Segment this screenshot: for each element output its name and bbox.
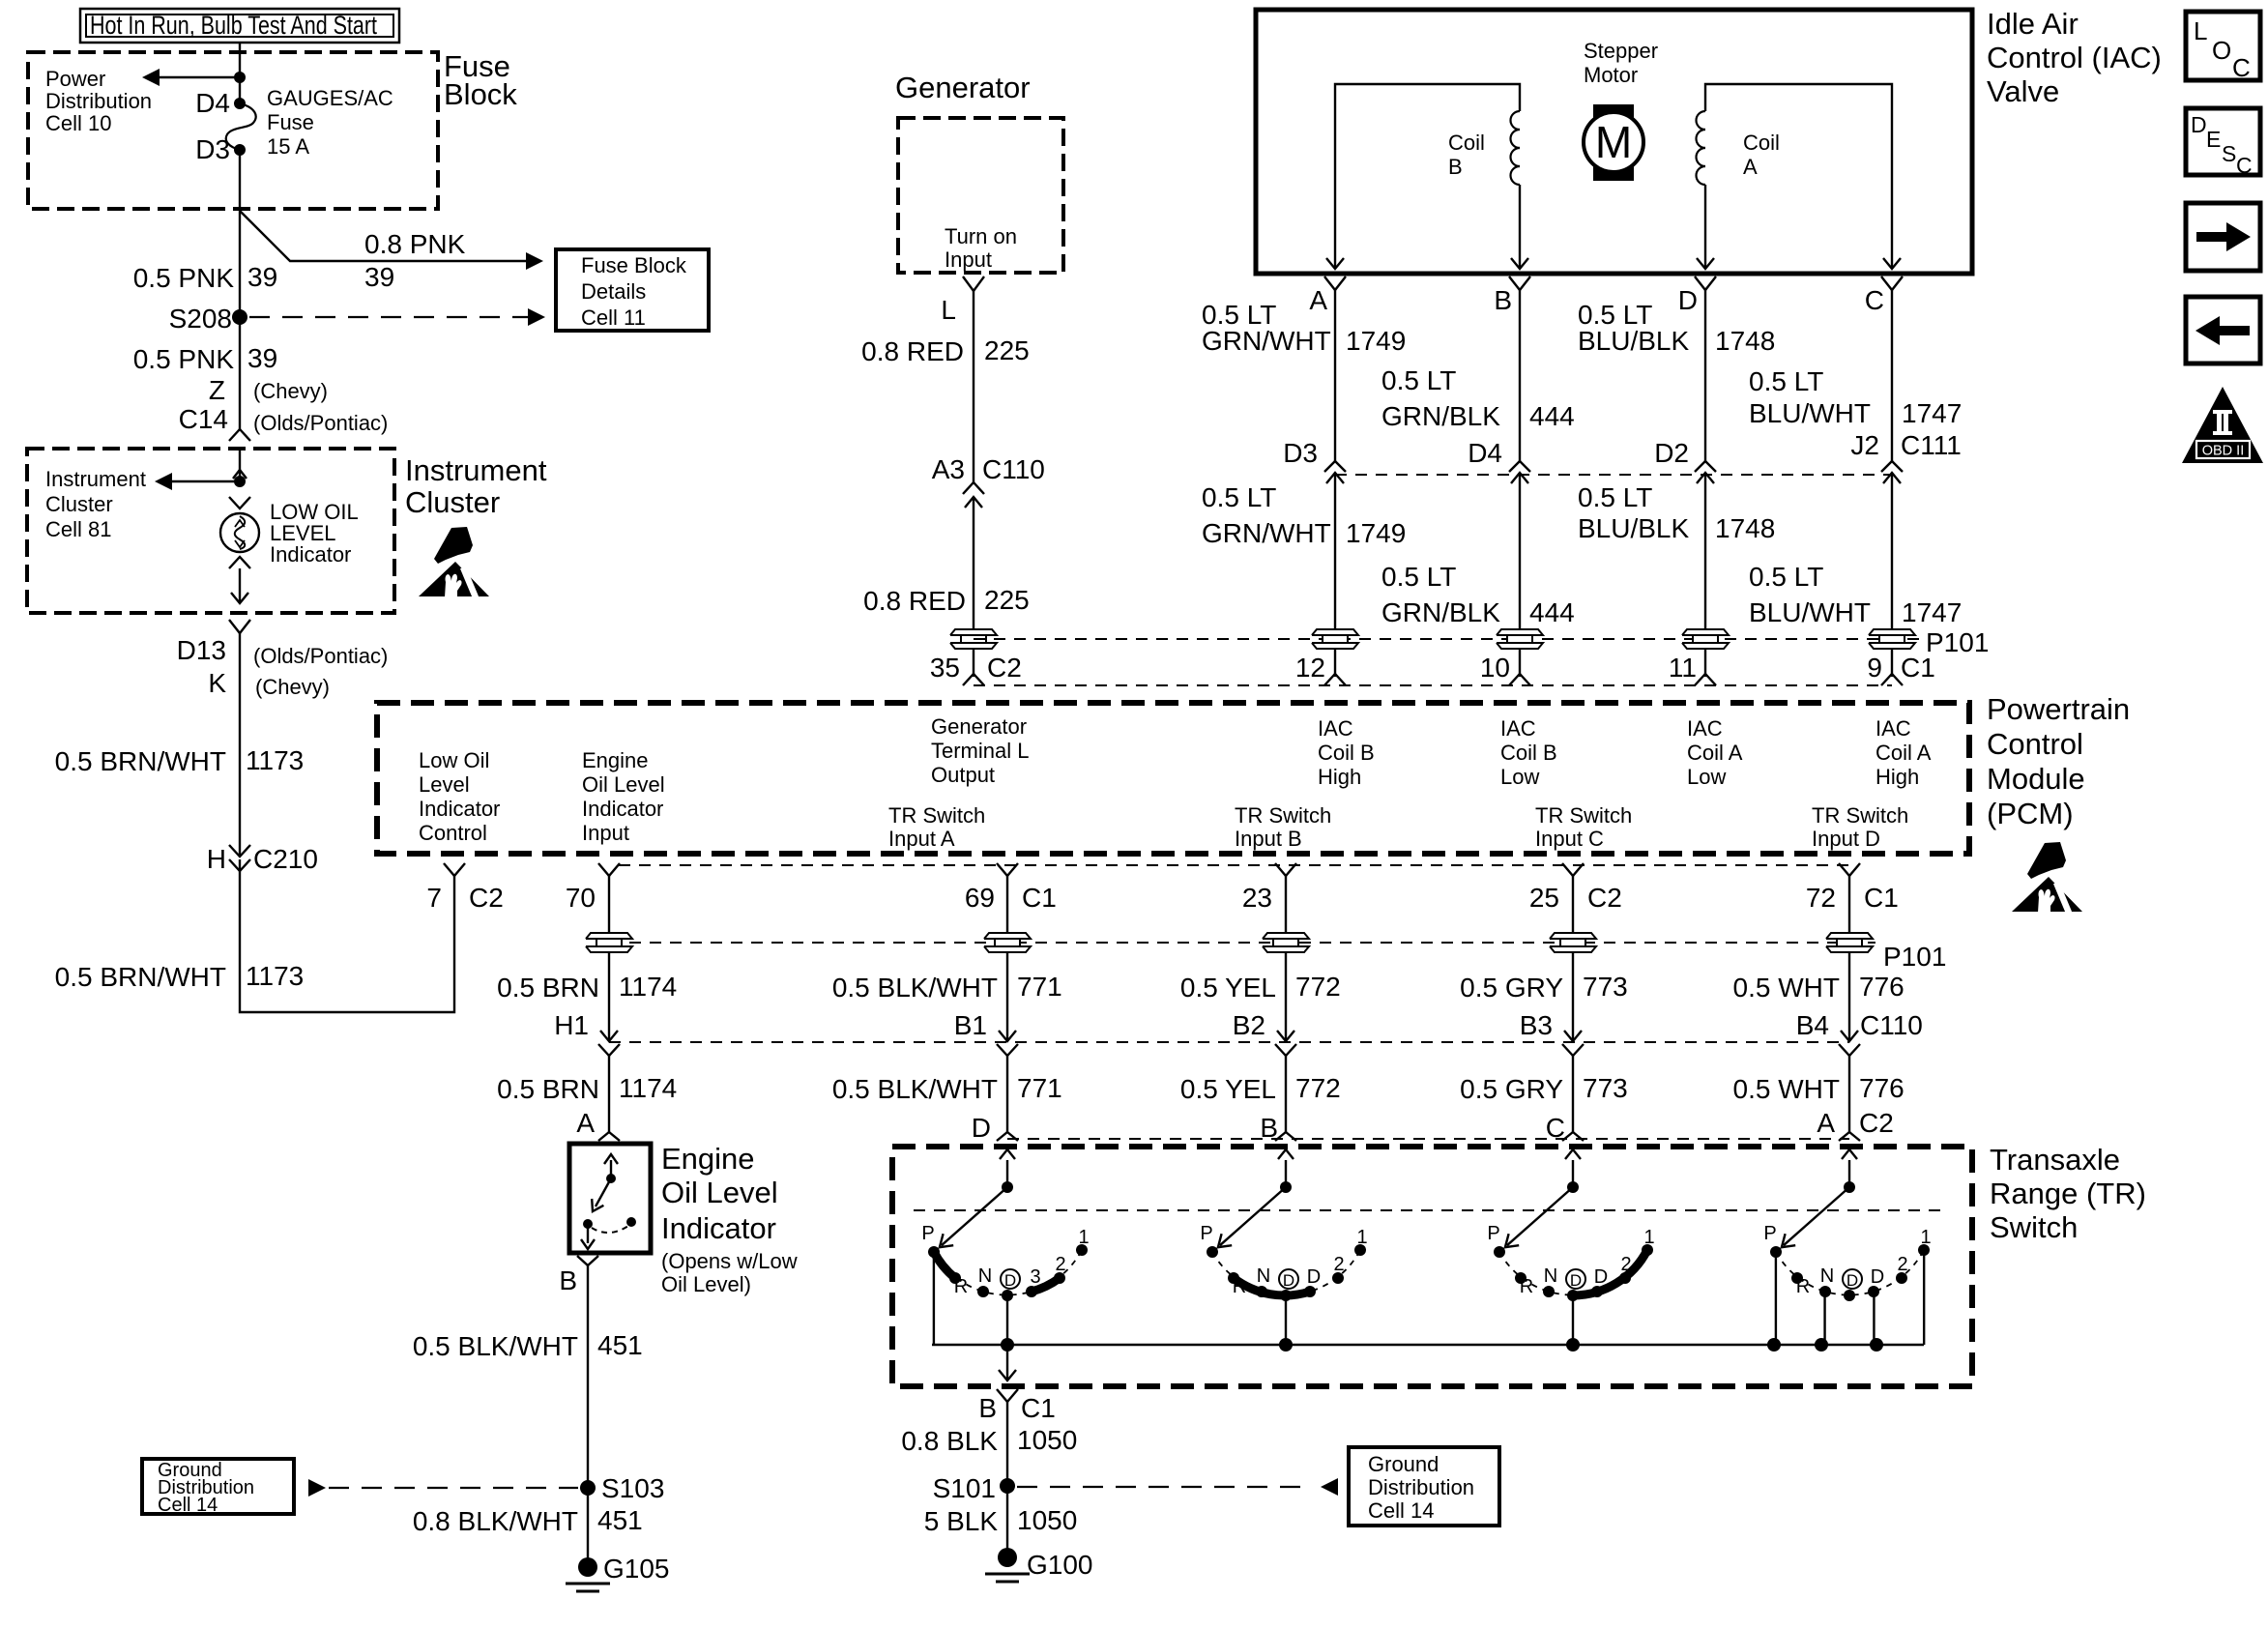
svg-text:D: D [1678,285,1698,315]
coil A winding [1697,111,1705,130]
svg-text:1748: 1748 [1715,513,1775,543]
wire C110 down at 630 [608,1056,610,1132]
svg-text:(Olds/Pontiac): (Olds/Pontiac) [253,644,388,668]
TR switch section input C [1567,1181,1579,1193]
svg-text:Distribution: Distribution [1368,1475,1474,1499]
connector chevron and arrow at C111 row [1324,461,1346,472]
wire C lens to pin 9 [1891,650,1893,677]
svg-text:Input: Input [945,247,992,272]
svg-text:TR Switch: TR Switch [1812,803,1908,828]
IAC pin D [1695,276,1716,290]
svg-text:39: 39 [247,343,277,373]
svg-text:11: 11 [1669,653,1697,683]
svg-text:IAC: IAC [1318,716,1353,741]
wire TR B down to S101 [1006,1402,1008,1557]
svg-text:39: 39 [364,262,394,292]
wire P101 to C110 at 630 [608,953,610,1040]
svg-text:1173: 1173 [246,745,304,775]
wire into cluster [239,449,241,481]
wire B down to S103 [587,1265,589,1563]
inline connector P101 at 1913 [1826,933,1873,939]
svg-text:S: S [2222,141,2236,166]
svg-text:444: 444 [1529,597,1575,627]
svg-text:1748: 1748 [1715,326,1775,356]
svg-text:Low: Low [1687,765,1726,789]
IAC pin C [1881,276,1903,290]
wire lamp down [239,568,241,601]
svg-text:BLU/BLK: BLU/BLK [1578,326,1689,356]
svg-text:C1: C1 [1021,1393,1056,1423]
arrow down to cluster edge [231,593,248,603]
arrow to ground distribution box right [1321,1478,1338,1496]
coil B winding [1511,111,1521,130]
svg-text:Indicator: Indicator [270,542,351,567]
svg-text:771: 771 [1017,1073,1062,1103]
arrow to power distribution [160,76,240,78]
svg-text:A: A [1817,1108,1835,1138]
wire P101 to C110 at 1330 [1285,953,1287,1040]
svg-text:G100: G100 [1027,1550,1093,1580]
svg-text:Level: Level [419,772,470,797]
connector chevron and arrow at C111 row [1509,461,1530,472]
svg-text:0.5 PNK: 0.5 PNK [133,263,235,293]
svg-text:S208: S208 [169,304,232,334]
svg-text:Oil Level: Oil Level [582,772,665,797]
wire IAC D to row [1704,290,1706,461]
svg-text:Instrument: Instrument [405,453,547,487]
svg-text:B4: B4 [1796,1010,1829,1040]
svg-text:B2: B2 [1233,1010,1265,1040]
svg-text:Distribution: Distribution [45,89,152,113]
connector chevron and arrow at C111 row [1695,461,1716,472]
svg-text:Input: Input [582,821,629,845]
svg-text:(Chevy): (Chevy) [253,379,328,403]
engine oil level indicator box [569,1144,651,1253]
svg-text:Input D: Input D [1812,827,1880,851]
svg-text:High: High [1318,765,1361,789]
svg-text:1749: 1749 [1346,518,1406,548]
svg-text:0.5 WHT: 0.5 WHT [1733,1074,1840,1104]
svg-text:9: 9 [1867,653,1882,683]
svg-text:B: B [1448,155,1463,179]
svg-text:Indicator: Indicator [661,1211,776,1245]
svg-text:Valve: Valve [1987,74,2059,108]
IAC valve box [1256,10,1972,274]
wire D row to P101 [1704,473,1706,628]
wire D lens to pin 11 [1704,650,1706,677]
arrow into fuse block details [526,252,543,270]
svg-text:B: B [978,1393,997,1423]
svg-text:D3: D3 [195,134,230,164]
svg-text:O: O [2212,36,2231,65]
svg-text:12: 12 [1295,653,1325,683]
svg-text:0.5 LT: 0.5 LT [1578,482,1652,512]
lamp bottom chevron [229,557,250,568]
inline connector P101 [1869,629,1915,635]
svg-text:7: 7 [426,883,442,913]
dashed line ground distribution to S103 [329,1487,578,1489]
svg-text:Ground: Ground [1368,1452,1439,1476]
svg-text:Turn on: Turn on [945,224,1017,248]
svg-text:Module: Module [1987,762,2085,796]
arrow from ground distribution box [308,1479,326,1497]
svg-text:0.5 LT: 0.5 LT [1749,562,1823,592]
svg-text:N: N [978,1265,992,1287]
wire C110 down at 1627 [1572,1056,1574,1132]
svg-text:B: B [1494,285,1512,315]
svg-text:GRN/WHT: GRN/WHT [1202,518,1331,548]
svg-text:451: 451 [597,1330,643,1360]
svg-text:Generator: Generator [931,714,1027,739]
svg-text:C2: C2 [1587,883,1622,913]
arrow coil A low down [1697,258,1714,269]
svg-text:Control: Control [419,821,487,845]
switch arrow down to B [587,1224,589,1243]
svg-text:GRN/BLK: GRN/BLK [1381,401,1500,431]
icon left arrow box [2186,297,2260,363]
svg-text:Generator: Generator [895,71,1031,104]
junction dot in cluster [234,476,246,487]
svg-text:0.5 PNK: 0.5 PNK [133,344,235,374]
TR bus wire [932,1344,1924,1346]
svg-text:Details: Details [581,279,646,304]
switch contact arrow up [610,1160,612,1178]
dashed pin row below PCM [619,864,1849,866]
stepper motor M [1593,104,1634,181]
inline connector P101 [1497,629,1543,635]
svg-text:1: 1 [1920,1227,1931,1248]
svg-text:69: 69 [965,883,995,913]
svg-text:D3: D3 [1283,438,1318,468]
ground G100 [998,1548,1017,1567]
svg-text:H: H [207,844,226,874]
svg-text:S101: S101 [933,1473,996,1503]
dashed line inside TR box [914,1209,1948,1211]
dashed row TR connector [1007,1138,1849,1140]
svg-text:C2: C2 [1859,1108,1894,1138]
svg-text:D4: D4 [195,88,230,118]
svg-text:Coil B: Coil B [1500,741,1557,765]
svg-text:225: 225 [984,335,1030,365]
wire P101 to C110 at 1913 [1848,953,1850,1040]
svg-text:P: P [1763,1223,1776,1244]
svg-text:Control: Control [1987,727,2083,761]
svg-text:Oil Level): Oil Level) [661,1272,751,1296]
svg-text:Stepper: Stepper [1584,39,1658,63]
wire IAC B to row [1519,290,1521,461]
svg-text:1: 1 [1356,1227,1367,1248]
chevron below C110 at 1330 [1275,1044,1296,1056]
svg-text:D: D [1307,1266,1321,1288]
svg-text:C1: C1 [1901,653,1935,683]
svg-text:Idle Air: Idle Air [1987,7,2079,41]
chevron below C110 at 1627 [1562,1044,1584,1056]
svg-text:D: D [1846,1271,1858,1290]
svg-text:1174: 1174 [619,972,677,1002]
svg-text:0.5 BRN: 0.5 BRN [497,1074,599,1104]
lamp LOW OIL LEVEL indicator [220,513,259,552]
svg-text:C1: C1 [1864,883,1899,913]
splice S103 [580,1480,596,1496]
wire generator to P101 [973,497,974,628]
dashed pin row above PCM [974,684,1892,686]
svg-text:0.8 PNK: 0.8 PNK [364,229,466,259]
inline connector P101 on generator wire [950,629,997,635]
svg-text:R: R [1520,1276,1533,1297]
svg-text:P101: P101 [1926,627,1989,657]
svg-text:0.5 LT: 0.5 LT [1202,482,1276,512]
svg-text:Engine: Engine [582,748,649,772]
chevron below C110 at 1913 [1839,1044,1860,1056]
esd symbol instrument cluster [419,527,489,597]
svg-text:TR Switch: TR Switch [1535,803,1632,828]
IAC pin B [1509,276,1530,290]
svg-text:1747: 1747 [1902,398,1962,428]
splice S101 [1000,1478,1015,1494]
arrow coil A high down [1883,258,1901,269]
svg-text:Low: Low [1500,765,1539,789]
svg-text:J2: J2 [1850,430,1879,460]
svg-text:Hot In Run, Bulb Test And Star: Hot In Run, Bulb Test And Start [90,11,377,40]
svg-text:TR Switch: TR Switch [888,803,985,828]
wire P101 to C110 at 1042 [1006,953,1008,1040]
svg-text:D: D [1004,1271,1016,1290]
svg-text:5 BLK: 5 BLK [924,1506,999,1536]
inline connector P101 at 630 [586,933,632,939]
svg-text:Output: Output [931,763,995,787]
arrow to instrument cluster cell 81 [172,480,240,482]
svg-text:Input C: Input C [1535,827,1604,851]
svg-text:451: 451 [597,1505,643,1535]
svg-text:BLU/WHT: BLU/WHT [1749,597,1871,627]
wire P101 to C110 at 1627 [1572,953,1574,1040]
wire A row to P101 [1334,473,1336,628]
svg-text:IAC: IAC [1875,716,1911,741]
svg-text:GRN/WHT: GRN/WHT [1202,326,1331,356]
node D4 [234,98,246,109]
svg-text:0.5 GRY: 0.5 GRY [1460,1074,1563,1104]
svg-text:A3: A3 [932,454,965,484]
fuse block dashed box [28,52,438,209]
generator dashed box [898,118,1063,273]
fuse block details box [556,249,709,331]
svg-text:0.5 BRN/WHT: 0.5 BRN/WHT [55,746,226,776]
svg-text:Powertrain: Powertrain [1987,692,2130,726]
svg-text:L: L [941,295,956,325]
svg-text:Oil Level: Oil Level [661,1176,778,1209]
svg-text:15 A: 15 A [267,134,309,159]
svg-text:23: 23 [1242,883,1272,913]
svg-text:2: 2 [1333,1254,1344,1275]
svg-text:2: 2 [1897,1254,1907,1275]
svg-text:Motor: Motor [1584,63,1638,87]
dashed connector row C111 [1335,474,1892,476]
svg-text:Fuse Block: Fuse Block [581,253,687,277]
svg-text:Engine: Engine [661,1142,755,1176]
ground distribution box right [1349,1447,1499,1526]
wire pin to P101 at 1627 [1572,876,1574,932]
svg-text:Coil: Coil [1448,131,1485,155]
svg-text:0.5 BLK/WHT: 0.5 BLK/WHT [832,973,998,1003]
svg-text:0.5 LT: 0.5 LT [1749,366,1823,396]
connector chevron and arrow at C111 row [1881,461,1903,472]
wire B lens to pin 10 [1519,650,1521,677]
TR switch section input D [1002,1181,1013,1193]
wire C110 down at 1330 [1285,1056,1287,1132]
svg-text:Power: Power [45,67,105,91]
svg-text:N: N [1544,1265,1557,1287]
esd symbol PCM [2012,842,2082,913]
inline connector P101 [1312,629,1358,635]
svg-text:10: 10 [1480,653,1510,683]
svg-text:BLU/WHT: BLU/WHT [1749,398,1871,428]
pin 70 [598,863,620,876]
svg-text:1050: 1050 [1017,1505,1077,1535]
wire C110 down at 1913 [1848,1056,1850,1132]
svg-text:0.5 LT: 0.5 LT [1381,365,1456,395]
arrow up at C110 [965,497,982,508]
svg-text:35: 35 [930,653,960,683]
svg-text:R: R [1796,1276,1810,1297]
splice S208 [232,309,247,325]
junction dot at arrow [234,72,246,83]
svg-text:Cluster: Cluster [45,492,113,516]
svg-text:(Chevy): (Chevy) [255,675,330,699]
svg-text:773: 773 [1583,1073,1628,1103]
icon DESC box [2186,108,2260,175]
svg-text:771: 771 [1017,972,1062,1002]
svg-text:D: D [972,1113,991,1143]
svg-text:Control (IAC): Control (IAC) [1987,41,2162,74]
wire branch diagonal 0.8 PNK [240,211,526,261]
svg-text:M: M [1595,117,1632,167]
svg-text:0.5 YEL: 0.5 YEL [1180,973,1276,1003]
svg-text:L: L [2194,16,2207,45]
svg-text:Fuse: Fuse [267,110,314,134]
svg-text:N: N [1820,1265,1834,1287]
svg-text:(PCM): (PCM) [1987,797,2074,830]
svg-text:444: 444 [1529,401,1575,431]
svg-text:772: 772 [1295,972,1341,1002]
svg-text:1050: 1050 [1017,1425,1077,1455]
svg-text:C2: C2 [469,883,504,913]
instrument cluster dashed box [27,449,394,613]
svg-text:P: P [1487,1223,1499,1244]
chevron below C110 at 630 [598,1044,620,1056]
svg-text:0.8 BLK/WHT: 0.8 BLK/WHT [413,1506,578,1536]
wire pin to P101 at 630 [608,876,610,932]
svg-text:Coil A: Coil A [1687,741,1743,765]
svg-text:B3: B3 [1520,1010,1553,1040]
svg-text:IAC: IAC [1687,716,1723,741]
pin 72 C1 [1839,863,1860,876]
svg-text:(Opens w/Low: (Opens w/Low [661,1249,798,1273]
svg-text:Cell 14: Cell 14 [1368,1498,1434,1523]
pin 69 C1 [997,863,1018,876]
svg-text:D: D [1871,1266,1884,1288]
wire C row to P101 [1891,473,1893,628]
svg-text:C14: C14 [179,404,228,434]
dashed line P101 row 2 [609,942,1875,944]
svg-text:E: E [2206,127,2221,152]
svg-text:GAUGES/AC: GAUGES/AC [267,86,393,110]
svg-text:Cell 10: Cell 10 [45,111,111,135]
svg-text:C110: C110 [982,454,1045,484]
svg-text:0.5 BLK/WHT: 0.5 BLK/WHT [413,1331,578,1361]
svg-text:0.8 RED: 0.8 RED [861,336,964,366]
ground G105 [578,1557,597,1577]
svg-text:Z: Z [209,375,225,405]
svg-text:D: D [1570,1271,1582,1290]
pin 25 C2 [1562,863,1584,876]
svg-text:0.8 RED: 0.8 RED [863,586,966,616]
svg-text:GRN/BLK: GRN/BLK [1381,597,1500,627]
wire C110 down at 1042 [1006,1056,1008,1132]
wire B row to P101 [1519,473,1521,628]
svg-text:Indicator: Indicator [582,797,663,821]
svg-text:1747: 1747 [1902,597,1962,627]
wire coil A down [1704,185,1706,268]
switch pivot dot [606,1174,616,1183]
svg-text:Coil B: Coil B [1318,741,1375,765]
svg-text:Input B: Input B [1235,827,1302,851]
svg-text:Cell 14: Cell 14 [158,1495,218,1516]
switch dashed throw arc [592,1226,628,1233]
label box Hot In Run, Bulb Test And Start [80,9,399,43]
wire cluster to C210 [239,633,241,855]
svg-text:776: 776 [1859,972,1905,1002]
svg-text:Range (TR): Range (TR) [1990,1177,2146,1210]
icon OBD II triangle [2182,387,2263,463]
svg-text:0.5 BRN/WHT: 0.5 BRN/WHT [55,962,226,992]
svg-text:772: 772 [1295,1073,1341,1103]
svg-text:0.5 BRN: 0.5 BRN [497,973,599,1003]
wire D3 down to branch [239,150,241,211]
chevron below C110 at 1042 [997,1044,1018,1056]
svg-text:P: P [921,1223,934,1244]
svg-text:Transaxle: Transaxle [1990,1143,2120,1177]
svg-text:D4: D4 [1468,438,1502,468]
svg-text:B: B [559,1265,577,1295]
TR switch section input A [1844,1181,1855,1193]
TR output arrow down [1006,1345,1008,1380]
wire coil A top rail [1705,84,1892,268]
svg-text:C: C [1865,285,1884,315]
arrow coil A-side down [1326,258,1344,269]
svg-text:C110: C110 [1860,1010,1923,1040]
svg-text:0.5 GRY: 0.5 GRY [1460,973,1563,1003]
wire pin to P101 at 1330 [1285,876,1287,932]
node D3 [234,144,246,156]
svg-text:Indicator: Indicator [419,797,500,821]
icon right arrow box [2186,203,2260,271]
wire lens to pin 35 [973,650,974,677]
svg-text:Cell 81: Cell 81 [45,517,111,541]
wire S208 down to C14 [239,317,241,429]
inline connector P101 at 1042 [984,933,1031,939]
bus junction dots [1001,1338,1014,1352]
svg-text:(Olds/Pontiac): (Olds/Pontiac) [253,411,388,435]
svg-text:0.5 YEL: 0.5 YEL [1180,1074,1276,1104]
svg-text:1: 1 [1643,1227,1654,1248]
svg-text:C: C [2236,153,2253,178]
svg-text:1173: 1173 [246,961,304,991]
svg-text:2: 2 [1055,1254,1065,1275]
fuse GAUGES/AC 15A S-curve [226,103,256,150]
wire IAC C to row [1891,290,1893,461]
svg-text:P101: P101 [1883,942,1946,972]
inline connector P101 at 1330 [1263,933,1309,939]
